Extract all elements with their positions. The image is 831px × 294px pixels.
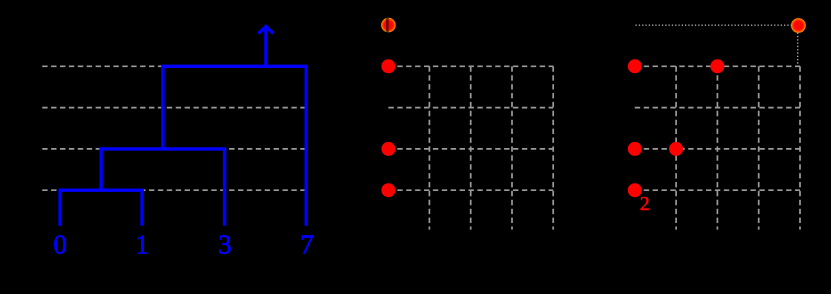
right bead row0 col2: [710, 59, 724, 73]
dotted guide vertical from moved bead: [797, 33, 799, 66]
right bead row2 col1: [669, 142, 683, 156]
svg-text:2: 2: [640, 193, 650, 215]
middle bead row0: [381, 59, 395, 73]
tree edge: (01) riser and join with leaf 3: [101, 149, 225, 226]
right grid dashed column 3: [758, 66, 760, 229]
middle grid dashed column 1: [428, 66, 430, 229]
dashed level line row1 (tree): [42, 107, 306, 109]
tree edge: (013) riser, top bar and leaf 7 drop: [163, 66, 306, 225]
middle grid dashed row 1: [388, 107, 553, 109]
svg-text:1: 1: [135, 230, 149, 260]
right bead row0 col0: [628, 59, 642, 73]
svg-text:3: 3: [218, 230, 232, 260]
dotted guide horizontal to moved bead: [636, 24, 792, 26]
right top bead (moved bead with orange rim): [791, 18, 806, 33]
middle grid dashed column 2: [470, 66, 472, 229]
root arrow head: [259, 26, 272, 32]
right grid dashed column 1: [675, 66, 677, 229]
middle bead row3: [381, 183, 395, 197]
right bead row3 col0: [628, 183, 642, 197]
root arrow stem: [264, 29, 267, 67]
right grid dashed row 2: [635, 148, 800, 150]
middle grid dashed row 2: [388, 148, 553, 150]
right grid dashed row 1: [635, 107, 800, 109]
svg-text:0: 0: [53, 230, 67, 260]
right bead row2 col0: [628, 142, 642, 156]
middle bead row2: [381, 142, 395, 156]
right grid dashed column 4: [799, 66, 801, 229]
middle grid dashed column 3: [511, 66, 513, 229]
right grid dashed row 3: [635, 189, 800, 191]
middle grid dashed column 4: [552, 66, 554, 229]
dashed level line row2 (tree): [42, 148, 306, 150]
tree edge: leaf0-leaf1 bracket: [60, 190, 142, 226]
svg-text:7: 7: [300, 230, 314, 260]
dashed level line row0 (tree): [42, 65, 306, 67]
dashed level line row3 (tree): [42, 189, 306, 191]
middle grid dashed row 0: [388, 65, 553, 67]
middle top bead (added bead with orange rim): [381, 18, 396, 33]
right grid dashed row 0: [635, 65, 800, 67]
right grid dashed column 2: [716, 66, 718, 229]
middle grid dashed row 3: [388, 189, 553, 191]
dark guide stripe over middle top bead: [386, 18, 389, 33]
